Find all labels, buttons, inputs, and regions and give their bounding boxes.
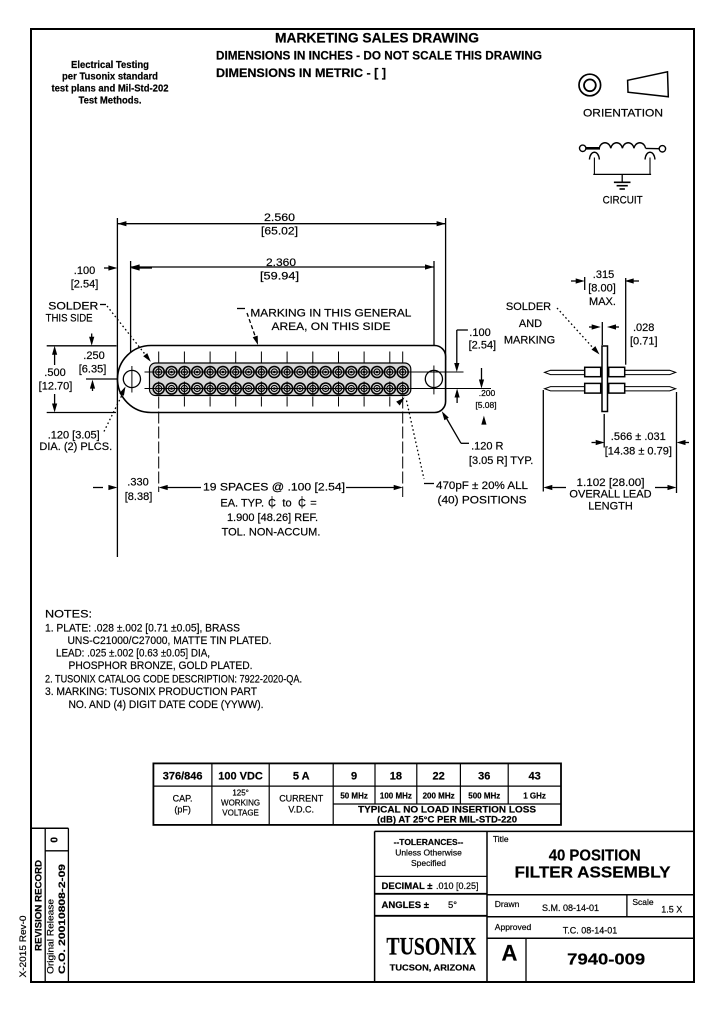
svg-text:MARKETING SALES DRAWING: MARKETING SALES DRAWING <box>275 31 479 46</box>
svg-text:7940-009: 7940-009 <box>567 952 645 969</box>
svg-text:22: 22 <box>432 771 444 783</box>
svg-text:REVISION RECORD: REVISION RECORD <box>34 860 45 951</box>
svg-text:DECIMAL ±: DECIMAL ± <box>382 881 433 892</box>
svg-text:5 A: 5 A <box>293 771 310 783</box>
svg-text:Drawn: Drawn <box>495 899 520 909</box>
svg-text:CIRCUIT: CIRCUIT <box>603 194 643 206</box>
svg-text:19 SPACES @ .100 [2.54]: 19 SPACES @ .100 [2.54] <box>203 482 345 494</box>
svg-text:50 MHz: 50 MHz <box>340 792 368 801</box>
svg-text:test plans and Mil-Std-202: test plans and Mil-Std-202 <box>52 84 169 95</box>
svg-text:FILTER ASSEMBLY: FILTER ASSEMBLY <box>515 864 672 881</box>
svg-text:Unless Otherwise: Unless Otherwise <box>395 848 462 858</box>
svg-text:.566 ± .031: .566 ± .031 <box>611 431 666 443</box>
svg-text:.100: .100 <box>469 327 490 339</box>
svg-text:[6.35]: [6.35] <box>79 364 107 376</box>
svg-text:=: = <box>310 498 316 510</box>
svg-text:to: to <box>282 498 291 510</box>
svg-text:[59.94]: [59.94] <box>260 271 299 283</box>
svg-text:0: 0 <box>50 837 61 843</box>
svg-text:18: 18 <box>390 771 402 783</box>
svg-text:C.O. 20010808-2-09: C.O. 20010808-2-09 <box>57 864 68 974</box>
svg-text:per Tusonix standard: per Tusonix standard <box>62 72 158 83</box>
svg-text:TUSONIX: TUSONIX <box>386 934 476 961</box>
svg-text:[3.05 R] TYP.: [3.05 R] TYP. <box>469 455 533 467</box>
svg-text:AREA, ON THIS SIDE: AREA, ON THIS SIDE <box>272 321 391 333</box>
svg-text:.120 [3.05]: .120 [3.05] <box>48 430 100 442</box>
svg-text:5°: 5° <box>448 900 457 911</box>
svg-text:(pF): (pF) <box>174 805 191 815</box>
svg-text:LENGTH: LENGTH <box>588 501 633 513</box>
svg-text:.010 [0.25]: .010 [0.25] <box>436 881 479 891</box>
svg-text:[14.38 ± 0.79]: [14.38 ± 0.79] <box>605 446 672 458</box>
svg-text:36: 36 <box>478 771 490 783</box>
svg-text:A: A <box>502 941 518 966</box>
svg-text:V.D.C.: V.D.C. <box>288 805 314 815</box>
svg-text:EA. TYP.: EA. TYP. <box>220 498 264 510</box>
svg-text:.330: .330 <box>127 477 148 489</box>
svg-text:1. PLATE: .028 ±.002 [0.71 ±: 1. PLATE: .028 ±.002 [0.71 ±0.05], BRASS <box>45 623 240 635</box>
svg-text:UNS-C21000/C27000, MATTE TIN P: UNS-C21000/C27000, MATTE TIN PLATED. <box>68 635 272 647</box>
svg-text:.120 R: .120 R <box>471 441 503 453</box>
svg-text:3. MARKING: TUSONIX PRODUCTI: 3. MARKING: TUSONIX PRODUCTION PART <box>45 686 257 698</box>
svg-text:PHOSPHOR BRONZE, GOLD PLATED.: PHOSPHOR BRONZE, GOLD PLATED. <box>69 660 253 672</box>
svg-text:1.102 [28.00]: 1.102 [28.00] <box>577 477 645 489</box>
svg-text:CURRENT: CURRENT <box>279 794 324 804</box>
svg-text:Electrical Testing: Electrical Testing <box>71 60 149 71</box>
svg-text:1.900 [48.26] REF.: 1.900 [48.26] REF. <box>227 512 318 524</box>
svg-text:(40) POSITIONS: (40) POSITIONS <box>438 495 527 507</box>
svg-text:AND: AND <box>519 318 542 330</box>
svg-text:S.M. 08-14-01: S.M. 08-14-01 <box>542 903 599 913</box>
svg-text:CAP.: CAP. <box>173 794 193 804</box>
svg-text:376/846: 376/846 <box>163 771 203 783</box>
svg-text:SOLDER: SOLDER <box>506 301 551 313</box>
svg-text:X-2015 Rev-0: X-2015 Rev-0 <box>18 916 28 978</box>
svg-text:40 POSITION: 40 POSITION <box>549 847 641 864</box>
svg-text:125°: 125° <box>232 789 249 798</box>
svg-text:[2.54]: [2.54] <box>469 340 497 352</box>
svg-text:DIMENSIONS IN INCHES - DO NOT: DIMENSIONS IN INCHES - DO NOT SCALE THIS… <box>216 49 542 63</box>
svg-text:NOTES:: NOTES: <box>45 609 92 621</box>
svg-text:2.560: 2.560 <box>264 212 295 224</box>
svg-text:DIA. (2) PLCS.: DIA. (2) PLCS. <box>39 441 112 453</box>
svg-text:1.5 X: 1.5 X <box>661 905 682 915</box>
svg-text:500 MHz: 500 MHz <box>468 792 500 801</box>
svg-text:Test Methods.: Test Methods. <box>79 95 142 106</box>
svg-text:[12.70]: [12.70] <box>39 381 73 393</box>
svg-text:100 MHz: 100 MHz <box>380 792 412 801</box>
svg-text:Title: Title <box>493 834 509 844</box>
svg-text:TUCSON, ARIZONA: TUCSON, ARIZONA <box>390 963 476 973</box>
svg-text:[2.54]: [2.54] <box>71 279 99 291</box>
svg-text:[8.38]: [8.38] <box>125 491 153 503</box>
svg-text:MARKING: MARKING <box>504 335 555 347</box>
svg-text:LEAD: .025 ±.002 [0.63 ±0.05]: LEAD: .025 ±.002 [0.63 ±0.05] DIA, <box>56 648 210 660</box>
svg-text:(dB) AT 25°C PER MIL-STD-220: (dB) AT 25°C PER MIL-STD-220 <box>377 814 517 824</box>
svg-text:470pF ± 20% ALL: 470pF ± 20% ALL <box>436 480 528 492</box>
svg-text:[65.02]: [65.02] <box>261 226 298 238</box>
svg-text:--TOLERANCES--: --TOLERANCES-- <box>394 837 464 847</box>
svg-text:OVERALL LEAD: OVERALL LEAD <box>569 489 651 501</box>
svg-text:.500: .500 <box>44 367 65 379</box>
svg-text:THIS SIDE: THIS SIDE <box>46 313 93 325</box>
svg-text:T.C. 08-14-01: T.C. 08-14-01 <box>563 926 618 936</box>
svg-text:VOLTAGE: VOLTAGE <box>222 809 259 818</box>
svg-text:WORKING: WORKING <box>221 799 260 808</box>
svg-text:.250: .250 <box>83 350 104 362</box>
svg-text:.200: .200 <box>479 388 496 398</box>
svg-text:2. TUSONIX CATALOG CODE DESCR: 2. TUSONIX CATALOG CODE DESCRIPTION: 792… <box>45 674 302 686</box>
svg-text:1 GHz: 1 GHz <box>523 792 546 801</box>
svg-text:ANGLES ±: ANGLES ± <box>382 900 429 911</box>
svg-text:SOLDER: SOLDER <box>48 301 98 313</box>
svg-text:Approved: Approved <box>495 922 532 932</box>
svg-text:Scale: Scale <box>632 897 654 907</box>
svg-text:DIMENSIONS IN METRIC - [ ]: DIMENSIONS IN METRIC - [ ] <box>216 66 386 80</box>
svg-text:43: 43 <box>528 771 540 783</box>
svg-text:Original Release: Original Release <box>46 899 56 974</box>
svg-text:9: 9 <box>351 771 357 783</box>
svg-text:[0.71]: [0.71] <box>630 336 658 348</box>
svg-text:TOL. NON-ACCUM.: TOL. NON-ACCUM. <box>222 527 321 539</box>
svg-text:Specified: Specified <box>411 858 446 868</box>
svg-text:100 VDC: 100 VDC <box>218 771 263 783</box>
svg-text:MARKING IN THIS GENERAL: MARKING IN THIS GENERAL <box>250 308 411 320</box>
svg-text:ORIENTATION: ORIENTATION <box>583 108 663 120</box>
svg-text:.100: .100 <box>74 265 95 277</box>
svg-text:MAX.: MAX. <box>589 296 616 308</box>
svg-text:200 MHz: 200 MHz <box>423 792 455 801</box>
svg-text:[5.08]: [5.08] <box>475 400 496 410</box>
svg-text:.028: .028 <box>633 322 654 334</box>
svg-text:[8.00]: [8.00] <box>588 283 616 295</box>
svg-text:NO. AND (4) DIGIT DATE CODE (Y: NO. AND (4) DIGIT DATE CODE (YYWW). <box>69 699 264 711</box>
svg-text:TYPICAL NO LOAD INSERTION LOSS: TYPICAL NO LOAD INSERTION LOSS <box>358 805 536 815</box>
svg-text:.315: .315 <box>593 269 614 281</box>
